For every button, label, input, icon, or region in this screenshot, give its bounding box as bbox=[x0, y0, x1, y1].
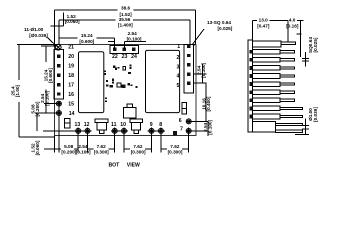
left overall dim extension top bbox=[17, 44, 55, 46]
svg-text:[0.100]: [0.100] bbox=[201, 62, 206, 77]
svg-text:15.24: 15.24 bbox=[81, 33, 93, 38]
right dim 10.16 extension pin6 bbox=[186, 120, 209, 122]
dim 2.54 top line bbox=[108, 41, 115, 43]
PCB outline bbox=[55, 44, 197, 135]
svg-text:13-SQ 0.64: 13-SQ 0.64 bbox=[207, 20, 231, 25]
dim 2.54 left line bbox=[45, 104, 47, 113]
side view pin row6 bbox=[280, 91, 294, 93]
bottom row pin 11 bbox=[112, 128, 117, 133]
svg-text:24: 24 bbox=[131, 54, 137, 60]
svg-text:[0.200]: [0.200] bbox=[35, 101, 40, 116]
bottom row pin 13 bbox=[76, 128, 81, 133]
svg-text:BOT: BOT bbox=[109, 162, 121, 168]
side view ladder bar row6 bbox=[253, 90, 281, 95]
side dim 13.0 extension left bbox=[251, 21, 253, 40]
svg-text:15: 15 bbox=[68, 102, 74, 108]
transformer T1 outline (left) bbox=[79, 52, 104, 113]
dim 4.0 arrow tick bbox=[297, 33, 302, 35]
svg-text:22: 22 bbox=[112, 54, 118, 60]
dim 1.52 top line bbox=[51, 25, 64, 27]
dim 15.24 top extension bbox=[114, 38, 116, 49]
side view ladder bar row9 bbox=[253, 114, 281, 119]
right connector J1 housing bbox=[184, 44, 194, 92]
svg-text:17: 17 bbox=[68, 82, 74, 88]
bottom chain dim line bbox=[44, 148, 61, 150]
transformer T2 outline (right) bbox=[146, 50, 180, 112]
svg-text:1: 1 bbox=[177, 44, 180, 50]
left connector J2 housing bbox=[54, 50, 64, 99]
pin 19 bbox=[57, 64, 60, 67]
dim 15.24 left extension from pin15 bbox=[44, 103, 62, 105]
svg-text:11-Ø1.00: 11-Ø1.00 bbox=[24, 27, 44, 32]
right dim 2.54 low extension pin7 bbox=[186, 130, 209, 132]
bottom row through line 9-8 bbox=[148, 130, 165, 132]
bottom row pin 12 bbox=[85, 128, 90, 133]
side view top header bar bbox=[253, 41, 281, 47]
svg-text:4: 4 bbox=[177, 74, 180, 80]
svg-text:5: 5 bbox=[177, 83, 180, 89]
svg-text:23: 23 bbox=[122, 54, 128, 60]
svg-text:[0.100]: [0.100] bbox=[76, 150, 91, 155]
svg-text:[0.039]: [0.039] bbox=[313, 107, 318, 122]
pin 5 bbox=[187, 82, 190, 85]
pin 21 target bbox=[55, 44, 61, 50]
pin 15 bbox=[56, 101, 61, 106]
dim 2.54 top extension bbox=[123, 42, 125, 49]
svg-text:38.6: 38.6 bbox=[121, 6, 131, 11]
pin 17 bbox=[57, 83, 60, 86]
side view pin row3 bbox=[280, 67, 294, 69]
bottom row through line 13-12 bbox=[75, 130, 92, 132]
side view round pin row10 bbox=[275, 123, 302, 125]
side view ladder bar row4 bbox=[253, 74, 281, 79]
rotated dimension labels bbox=[10, 37, 317, 156]
svg-text:[0.300]: [0.300] bbox=[168, 150, 183, 155]
svg-text:2.54: 2.54 bbox=[78, 144, 88, 149]
SMD outlined parts bbox=[123, 66, 126, 70]
side dim line bbox=[252, 20, 257, 22]
component bottom small square bbox=[173, 131, 177, 135]
dim 38.6 extension left bbox=[54, 10, 56, 44]
side view seating line bbox=[295, 133, 309, 135]
svg-text:[0.400]: [0.400] bbox=[206, 96, 211, 111]
svg-text:16: 16 bbox=[68, 92, 74, 98]
svg-text:13: 13 bbox=[75, 122, 81, 128]
svg-text:[Ø0.039]: [Ø0.039] bbox=[29, 33, 48, 38]
svg-text:14: 14 bbox=[69, 111, 75, 117]
svg-text:12: 12 bbox=[84, 122, 90, 128]
bottom row pin 9 bbox=[149, 128, 154, 133]
pin 2 bbox=[187, 54, 190, 57]
side view ladder bar row5 bbox=[253, 82, 281, 87]
svg-text:20: 20 bbox=[68, 54, 74, 60]
side dim right extension bbox=[299, 21, 301, 57]
dim 35.56 line bbox=[59, 19, 116, 21]
inductor L2 (square above pin 10) bbox=[123, 104, 136, 118]
svg-text:2: 2 bbox=[177, 55, 180, 61]
svg-text:[1.400]: [1.400] bbox=[118, 22, 133, 27]
svg-text:9: 9 bbox=[150, 122, 153, 128]
pin 1 callout leader bbox=[192, 29, 204, 45]
svg-text:[0.100]: [0.100] bbox=[127, 36, 142, 41]
svg-text:[0.300]: [0.300] bbox=[131, 150, 146, 155]
svg-text:[0.300]: [0.300] bbox=[94, 150, 109, 155]
svg-text:[0.100]: [0.100] bbox=[207, 119, 212, 134]
side view ladder bar row3 bbox=[253, 66, 281, 71]
side view pin row9 bbox=[280, 115, 302, 117]
pin 3 bbox=[187, 63, 190, 66]
side view pin row4 bbox=[280, 75, 294, 77]
bottom row pin 10 bbox=[122, 128, 127, 133]
svg-text:VIEW: VIEW bbox=[127, 162, 140, 168]
side view ladder bar row1 bbox=[253, 49, 281, 54]
side view bottom block bbox=[253, 122, 276, 132]
side view pin row1 bbox=[280, 51, 294, 53]
dim 38.6 line bbox=[55, 9, 118, 11]
svg-text:5.08: 5.08 bbox=[64, 144, 74, 149]
side view ladder bar row2 bbox=[253, 58, 281, 63]
pin 22 bbox=[113, 48, 116, 51]
side view baseplate bbox=[248, 40, 253, 132]
svg-text:18: 18 bbox=[68, 73, 74, 79]
dim 15.24 left extension from pin21 bbox=[41, 45, 58, 47]
right dim 2.54 extensions pins 4,5 bbox=[194, 73, 207, 75]
svg-text:[0.600]: [0.600] bbox=[79, 39, 94, 44]
side dim 4.0 extension left bbox=[287, 21, 289, 42]
svg-text:7.62: 7.62 bbox=[170, 144, 180, 149]
left overall dim line bbox=[18, 45, 20, 81]
bottom row pin 8 bbox=[158, 128, 163, 133]
capacitor C2 (right-side small) bbox=[182, 103, 186, 115]
svg-text:[0.060]: [0.060] bbox=[35, 140, 40, 155]
svg-text:3: 3 bbox=[177, 64, 180, 70]
svg-text:[0.200]: [0.200] bbox=[61, 150, 76, 155]
dim 15.24 left line bbox=[45, 46, 47, 62]
side view pin row7 bbox=[280, 99, 294, 101]
dim 38.6 extension right bbox=[195, 10, 197, 44]
dim 5.08 left line bbox=[36, 113, 38, 131]
side view top pin bbox=[281, 42, 295, 44]
right dim 10.16 line bbox=[205, 83, 207, 121]
svg-text:6: 6 bbox=[179, 118, 182, 124]
dia 1.00 arrows bbox=[305, 119, 307, 135]
dim 1.52 top extension bbox=[63, 13, 65, 27]
svg-text:11: 11 bbox=[111, 122, 117, 128]
svg-text:[0.025]: [0.025] bbox=[218, 26, 233, 31]
dim 5.08 left extension bottom row bbox=[43, 130, 75, 132]
pin 6 bbox=[186, 119, 191, 124]
pin 20 bbox=[57, 55, 60, 58]
svg-text:21: 21 bbox=[68, 45, 74, 51]
side view pin row5 bbox=[280, 83, 294, 85]
bottom row through line 11-10 bbox=[111, 130, 128, 132]
top connector housing pins 22-24 bbox=[110, 45, 138, 53]
pin 14 bbox=[56, 111, 61, 116]
SMD cluster center bbox=[104, 65, 138, 103]
svg-text:13.0: 13.0 bbox=[259, 18, 269, 23]
svg-text:[0.060]: [0.060] bbox=[65, 19, 80, 24]
left overall dim extension bottom bbox=[19, 136, 55, 138]
pin 4 bbox=[187, 72, 190, 75]
svg-text:[0.025]: [0.025] bbox=[313, 37, 318, 52]
svg-text:[0.600]: [0.600] bbox=[48, 68, 53, 83]
inductor L1 (top-hat between pins 12/11) bbox=[95, 119, 108, 134]
pin 23 bbox=[123, 48, 126, 51]
dim 35.56 extension right bbox=[189, 20, 191, 44]
pin 16 bbox=[57, 92, 60, 95]
pin 1 bbox=[187, 45, 190, 48]
svg-text:35.56: 35.56 bbox=[119, 17, 131, 22]
side view ladder bar row8 bbox=[253, 106, 281, 111]
svg-text:[1.00]: [1.00] bbox=[15, 84, 20, 97]
svg-text:[0.100]: [0.100] bbox=[45, 90, 50, 105]
capacitor C1 (bottom-left small) bbox=[65, 118, 70, 128]
dim 2.54 left extension from pin14 bbox=[35, 112, 62, 114]
pin 18 bbox=[57, 74, 60, 77]
hole callout leader bbox=[47, 37, 57, 46]
side view pin row8 bbox=[280, 107, 302, 109]
svg-text:1.52: 1.52 bbox=[67, 14, 77, 19]
svg-text:19: 19 bbox=[68, 64, 74, 70]
svg-text:2.54: 2.54 bbox=[128, 31, 138, 36]
svg-text:[0.16]: [0.16] bbox=[286, 23, 299, 28]
dim 15.24 top line bbox=[59, 37, 78, 39]
svg-text:8: 8 bbox=[159, 122, 162, 128]
pin 7 bbox=[186, 128, 191, 133]
side view pin row2 bbox=[280, 59, 294, 61]
svg-text:10: 10 bbox=[120, 122, 126, 128]
svg-text:[0.47]: [0.47] bbox=[257, 23, 270, 28]
svg-text:4.0: 4.0 bbox=[289, 18, 296, 23]
right dim 2.54 line bbox=[201, 64, 203, 83]
SQ0.64 arrows bbox=[305, 52, 307, 67]
bottom chain extensions bbox=[54, 136, 56, 153]
pin 24 bbox=[132, 48, 135, 51]
side view standoff marks bbox=[249, 50, 252, 119]
side view round pin row11 bbox=[275, 130, 302, 132]
svg-text:7.62: 7.62 bbox=[133, 144, 143, 149]
right dim 2.54 low line bbox=[207, 121, 209, 136]
svg-text:7: 7 bbox=[180, 126, 183, 132]
svg-text:7.62: 7.62 bbox=[97, 144, 107, 149]
inductor L3 (top-hat right of pin 10) bbox=[130, 119, 142, 134]
dim 35.56 extension left bbox=[58, 20, 60, 44]
side view ladder bar row7 bbox=[253, 98, 281, 103]
